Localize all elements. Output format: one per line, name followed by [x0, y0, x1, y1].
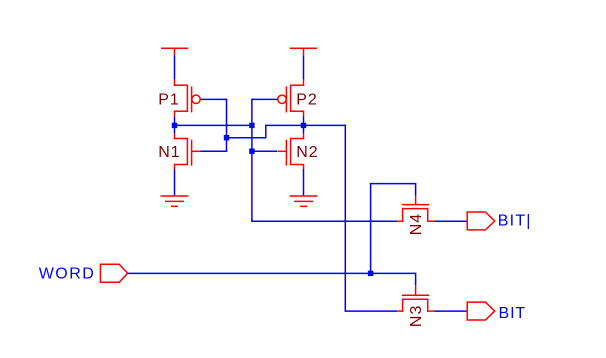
node A junction with N2 gate — [249, 149, 254, 154]
svg-text:BIT|: BIT| — [498, 213, 532, 230]
svg-text:N1: N1 — [158, 144, 180, 161]
wire N2 gate — [252, 150, 278, 152]
svg-text:P2: P2 — [296, 92, 318, 109]
transistor N3 (NMOS pass gate) — [397, 285, 434, 312]
node A junction at P1/N1 drains — [172, 123, 177, 128]
wire node A vertical column — [251, 99, 253, 222]
wire VDD1 to P1 source — [174, 55, 176, 79]
port BIT| — [467, 212, 495, 230]
wire node B step to cross-couple column — [227, 125, 304, 137]
port BIT — [467, 302, 495, 320]
node B junction on cross-couple column — [224, 135, 229, 140]
transistor P2 (PMOS, mirrored) — [278, 80, 304, 117]
vdd supply symbol VDD2 — [290, 48, 317, 55]
svg-text:P1: P1 — [158, 92, 180, 109]
wire N2 source to ground — [303, 169, 305, 196]
wire P2 gate bubble to node A column — [252, 98, 278, 100]
wire node A to pass transistor N4 — [251, 220, 397, 222]
wire P2 drain to node B — [303, 117, 305, 134]
wire WORD to N4 gate — [371, 184, 416, 275]
node A junction with drain wire — [249, 123, 254, 128]
svg-text:N2: N2 — [296, 144, 318, 161]
svg-text:WORD: WORD — [39, 266, 96, 283]
wire node B vertical down — [344, 125, 346, 311]
vdd supply symbol VDD1 — [161, 48, 188, 55]
wire N4 to port BIT| — [435, 220, 468, 222]
wire N1 source to ground — [174, 169, 176, 196]
wire N1 gate — [201, 150, 228, 152]
wire cross-couple column (node B to P1/N1 gates) — [226, 99, 228, 152]
transistor N4 (NMOS pass gate) — [397, 196, 434, 222]
wire node A horizontal (P1/N1 drains to P2-gate column) — [175, 124, 252, 126]
ground symbol under N2 — [290, 196, 318, 206]
wire WORD line — [128, 273, 416, 285]
node B junction at P2/N2 drains — [301, 123, 306, 128]
wire node B to the right — [304, 124, 346, 126]
transistor P1 (PMOS) — [174, 80, 200, 117]
wire VDD2 to P2 source — [303, 55, 305, 79]
junction WORD line to N4 gate column — [368, 271, 373, 276]
port WORD — [100, 264, 127, 282]
transistor N1 (NMOS) — [174, 134, 201, 169]
svg-text:N3: N3 — [408, 305, 425, 327]
transistor N2 (NMOS, mirrored) — [278, 134, 304, 169]
wire node B to pass transistor N3 — [345, 310, 398, 312]
wire P1 gate bubble to cross-couple column — [201, 98, 227, 100]
wire N3 to port BIT — [435, 310, 468, 312]
svg-text:N4: N4 — [408, 213, 425, 235]
ground symbol under N1 — [161, 196, 189, 206]
svg-text:BIT: BIT — [499, 305, 527, 322]
wire P1 drain to node A — [174, 117, 176, 134]
